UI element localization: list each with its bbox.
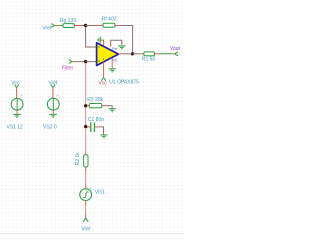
- svg-text:R1 50: R1 50: [142, 57, 156, 63]
- op-amp top pin1 to rotated ground: [97, 37, 103, 46]
- op-amp U1 OPAX875: [97, 43, 119, 66]
- wire node A to Rf: [86, 25, 98, 27]
- resistor R1: [142, 52, 158, 63]
- wire R3 to ground: [105, 105, 112, 107]
- node D junction: [84, 104, 87, 107]
- ground at R3: [109, 109, 116, 112]
- wire feedback node A down to inverting input: [86, 27, 92, 47]
- wire R1 to Vout: [158, 53, 172, 55]
- resistor Rf: [102, 17, 119, 28]
- svg-text:C1 80n: C1 80n: [88, 117, 104, 123]
- pin tick Vcc pin: [103, 59, 104, 60]
- sine symbol VG1: [83, 192, 89, 198]
- wire node C to non-inverting input: [86, 61, 92, 63]
- voltage source VS2: [43, 80, 59, 130]
- resistor R3: [87, 97, 106, 108]
- pin - mark: [98, 46, 100, 49]
- svg-text:Vout: Vout: [170, 46, 181, 52]
- ground below VS2: [49, 114, 57, 117]
- svg-text:U1 OPAX875: U1 OPAX875: [109, 79, 139, 85]
- node A junction: [84, 24, 87, 27]
- wire Vref to Rg: [56, 25, 60, 27]
- op-amp bottom pin Vcc jumper: [98, 62, 107, 87]
- pin + mark: [98, 60, 100, 62]
- svg-text:R2 1k: R2 1k: [75, 152, 81, 166]
- svg-text:VS1 12: VS1 12: [7, 125, 24, 131]
- ground at C1: [100, 135, 107, 138]
- wire node B to R1: [133, 53, 138, 55]
- bottom separator line: [0, 232, 184, 235]
- node Vref jumper arrow at VS2: [51, 85, 55, 88]
- wire R2 to VG1: [85, 171, 87, 183]
- svg-text:+: +: [90, 187, 92, 191]
- svg-text:+: +: [21, 94, 23, 98]
- node Filter jumper: [62, 60, 73, 72]
- wire rail C1 node to R2: [85, 128, 87, 151]
- svg-text:Vcc: Vcc: [98, 80, 107, 86]
- wire C1 to ground: [99, 127, 104, 132]
- voltage source VS1: [7, 80, 24, 130]
- svg-text:Rf 402: Rf 402: [102, 17, 117, 23]
- wire Filter to node C: [73, 61, 77, 63]
- source VG1 circle: [80, 189, 92, 201]
- svg-text:Vref: Vref: [81, 227, 91, 233]
- svg-text:VG1: VG1: [95, 190, 105, 196]
- pin VS2 - terminal: [52, 110, 54, 114]
- pin VS1 + terminal: [16, 88, 18, 99]
- generator VG1: [80, 187, 105, 201]
- node Vref jumper (bottom): [81, 218, 91, 233]
- node Vout jumper: [170, 46, 181, 56]
- op-amp output wire to node B: [119, 53, 123, 55]
- resistor Rg: [60, 18, 80, 28]
- node Vref jumper (top-left): [42, 24, 55, 32]
- source VS1 circle: [11, 98, 23, 110]
- svg-text:FB: FB: [113, 58, 117, 62]
- svg-text:Vref: Vref: [48, 80, 58, 86]
- svg-text:Rg 133: Rg 133: [60, 18, 76, 24]
- node B junction: [131, 52, 134, 55]
- source VS2 circle: [47, 98, 59, 110]
- svg-text:VS2 0: VS2 0: [43, 125, 57, 131]
- op-amp Ref pin bracket to ground: [111, 40, 126, 49]
- node C junction: [84, 60, 87, 63]
- wire rail R3 node to C1 node: [85, 107, 87, 125]
- capacitor C1: [87, 117, 104, 132]
- wire Rg to node A: [80, 25, 86, 27]
- pin VS1 - terminal: [16, 110, 18, 114]
- svg-text:Vref: Vref: [42, 25, 52, 31]
- svg-text:Ref: Ref: [112, 47, 117, 51]
- resistor R2: [75, 152, 88, 171]
- op-amp bottom pin2 to ground: [109, 58, 116, 72]
- wire Rf to output node B: [119, 26, 133, 54]
- wire VG1 to Vref jumper (bottom): [85, 201, 87, 206]
- pin VS2 + terminal: [52, 88, 54, 99]
- wire node C down rail to R3 node: [85, 63, 87, 105]
- node Vcc jumper arrow: [15, 85, 19, 88]
- svg-text:+: +: [57, 94, 59, 98]
- ground below VS1: [13, 114, 21, 117]
- svg-text:R3 20k: R3 20k: [87, 97, 103, 103]
- node E junction: [84, 125, 87, 128]
- svg-text:Filter: Filter: [62, 66, 73, 72]
